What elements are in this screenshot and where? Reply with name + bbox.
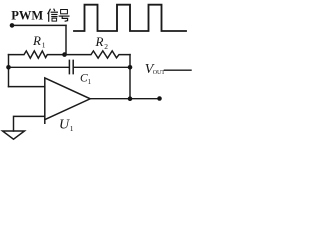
leader line after VOUT bbox=[165, 69, 192, 71]
node A junction dot (R1/R2/PWM) bbox=[62, 52, 67, 57]
label VOUT bbox=[145, 62, 165, 77]
label R1 bbox=[32, 33, 46, 50]
label PWM signal (PWM 信号) bbox=[11, 9, 43, 23]
label U1 bbox=[59, 118, 74, 134]
capacitor C1 bbox=[69, 60, 73, 73]
node: left bus / C1 junction dot bbox=[6, 65, 11, 70]
svg-text:1: 1 bbox=[70, 124, 74, 133]
resistor R2 bbox=[65, 51, 131, 58]
svg-text:R: R bbox=[32, 33, 41, 48]
resistor R1 bbox=[9, 51, 65, 58]
wire: C1 right bbox=[73, 66, 130, 68]
char 号 (drawn strokes) bbox=[59, 10, 69, 22]
svg-text:PWM: PWM bbox=[11, 9, 43, 23]
wire: non-inverting input bbox=[9, 86, 45, 88]
label R2 bbox=[95, 34, 109, 51]
wire: PWM node to vertical drop bbox=[12, 24, 66, 26]
label C1 bbox=[80, 72, 92, 86]
PWM input node dot bbox=[10, 23, 15, 28]
svg-text:1: 1 bbox=[42, 41, 46, 50]
ground bbox=[3, 131, 25, 139]
svg-text:U: U bbox=[59, 118, 70, 133]
wire: C1 left bbox=[9, 66, 70, 68]
svg-text:OUT: OUT bbox=[153, 70, 165, 76]
wire: right bus vertical bbox=[129, 55, 131, 99]
char 信 (drawn strokes) bbox=[48, 9, 58, 21]
wire: left bus vertical bbox=[8, 55, 10, 87]
wire: inverting input to ground bbox=[14, 116, 45, 131]
node: output terminal dot bbox=[157, 96, 162, 101]
wire: vertical drop to R1/R2 junction bbox=[65, 25, 67, 54]
svg-text:2: 2 bbox=[104, 42, 108, 51]
svg-text:R: R bbox=[95, 34, 104, 49]
node: right bus / C1 junction dot bbox=[128, 65, 133, 70]
node: output / right bus junction dot bbox=[128, 96, 133, 101]
PWM waveform bbox=[74, 5, 186, 31]
svg-text:1: 1 bbox=[88, 78, 92, 86]
op-amp U1 bbox=[45, 78, 90, 123]
wire: op-amp output bbox=[90, 98, 159, 100]
